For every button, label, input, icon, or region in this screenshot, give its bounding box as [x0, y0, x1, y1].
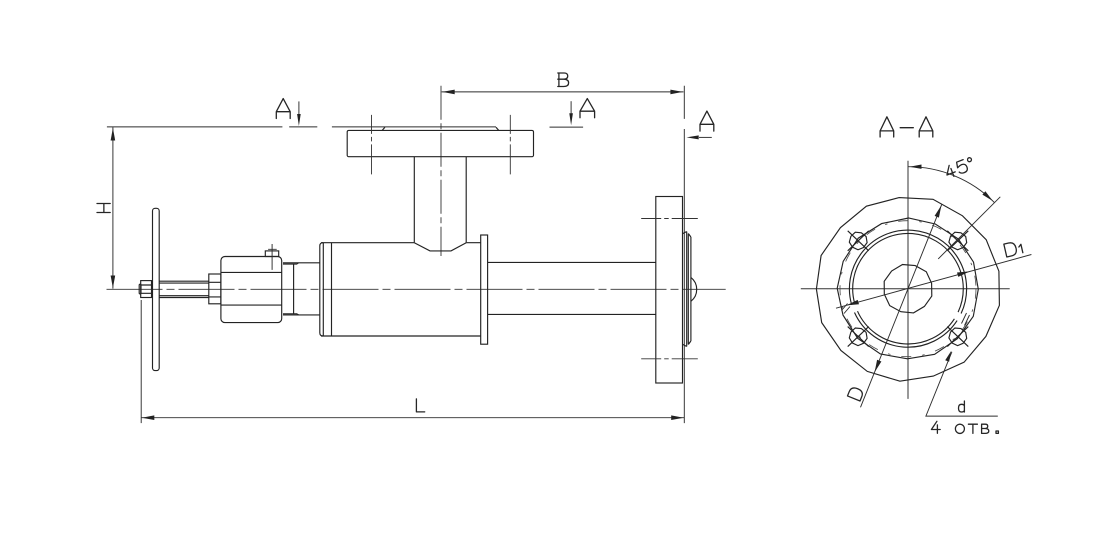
node L extension left	[140, 300, 142, 423]
union nut	[283, 263, 320, 315]
packing gland lines	[209, 282, 221, 297]
dimension D1 line	[836, 255, 1031, 309]
label B	[558, 73, 569, 87]
neck body junction	[414, 243, 466, 251]
dimension H line	[112, 127, 114, 288]
node 45deg radial line	[938, 197, 1000, 259]
valve body outline	[321, 243, 481, 336]
flange hub circle	[837, 218, 978, 359]
label D (rotated)	[847, 386, 863, 401]
node section trace segment mid	[550, 126, 584, 128]
node section trace vertical	[683, 86, 685, 423]
flange outer circle	[816, 198, 999, 382]
packing gland	[209, 274, 221, 304]
union chamfers	[283, 263, 299, 315]
stem	[159, 281, 209, 297]
sealing face arcs	[849, 230, 966, 347]
bolt holes d 4x with cross marks	[848, 231, 969, 347]
dimension 45deg arc	[908, 167, 994, 203]
outlet flange	[656, 197, 683, 384]
label H (rotated)	[97, 204, 110, 213]
node section arrow A left	[298, 101, 300, 115]
node bolt axis top flange left	[371, 115, 373, 174]
outlet pipe	[488, 262, 656, 314]
leader d holes	[926, 352, 998, 416]
node bolt axis outlet bottom	[641, 358, 698, 360]
label D1	[1004, 240, 1023, 257]
node section arrow A right	[699, 136, 712, 138]
wire main axis centerline	[107, 288, 726, 290]
label 45deg (rotated)	[944, 157, 975, 179]
gasket bulge	[691, 277, 697, 301]
bonnet top cap	[265, 251, 278, 257]
bonnet cap centerline	[268, 244, 277, 270]
dimension B line	[442, 91, 684, 93]
bonnet hex flats	[221, 272, 282, 305]
label L	[416, 399, 424, 412]
node section arrow A middle	[570, 101, 572, 114]
sealing arc break marks	[842, 304, 970, 326]
body right collar	[481, 235, 488, 344]
label A left	[276, 99, 290, 119]
handwheel	[153, 208, 160, 370]
label d	[959, 401, 965, 412]
label A right	[700, 111, 714, 131]
bonnet block	[221, 257, 282, 323]
neck	[414, 157, 466, 243]
node H extension line top	[107, 126, 496, 128]
dimension L line	[141, 417, 684, 419]
top flange raised face	[382, 127, 499, 130]
node bolt axis top flange right	[509, 115, 511, 174]
body left cap	[320, 243, 332, 336]
node neck centerline	[440, 86, 442, 256]
label 4 otv	[931, 421, 998, 433]
node bolt axis outlet top	[641, 218, 698, 220]
stem nut	[141, 281, 152, 298]
bolt circle centerline	[840, 221, 976, 357]
label A middle	[580, 99, 595, 118]
bore circle	[884, 265, 932, 313]
node A-A horizontal centerline	[801, 288, 1010, 290]
outlet flange raised face	[683, 232, 691, 347]
label section title A-A	[880, 117, 933, 137]
stem end cap	[139, 284, 141, 294]
dimension D line	[861, 204, 942, 407]
stem nut flats	[141, 285, 152, 293]
top flange	[347, 130, 533, 156]
node A-A vertical centerline	[907, 161, 909, 399]
